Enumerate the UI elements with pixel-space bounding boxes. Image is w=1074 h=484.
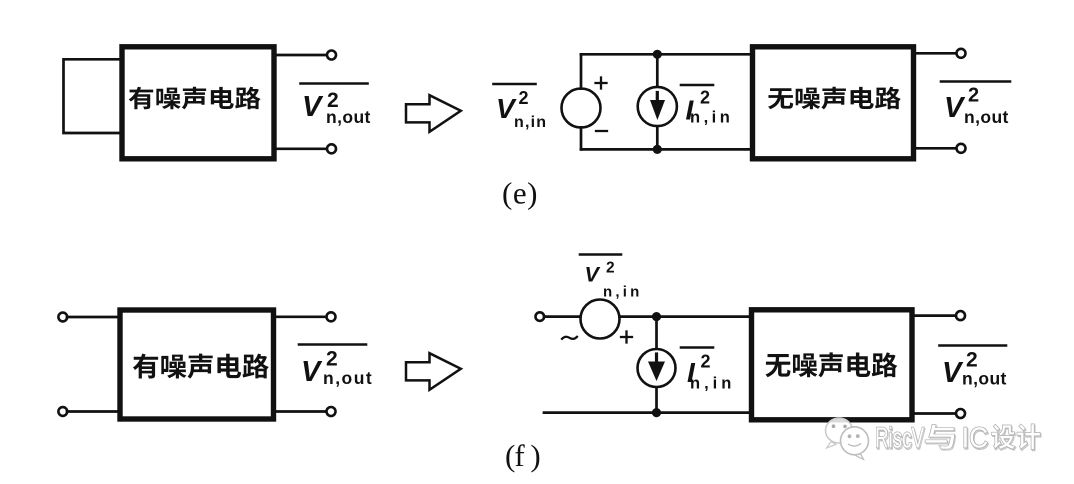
label 有噪声电路 (f) xyxy=(133,354,269,379)
junction: top node (f) xyxy=(652,312,661,321)
terminal: top output (e right) xyxy=(957,49,966,58)
wire: bottom input (f) xyxy=(67,410,120,413)
wire: voltage source to junction (f) xyxy=(620,315,657,318)
watermark text RiscV xyxy=(875,423,925,456)
label Vn,out^2 (f, after noisy box) xyxy=(299,345,373,389)
watermark text IC xyxy=(962,423,990,456)
current source arrow (e) xyxy=(656,93,659,102)
noiseless circuit box (f) xyxy=(752,310,913,420)
svg-text:V: V xyxy=(944,92,966,124)
wire: shorted input loop of noisy circuit (e) xyxy=(64,59,120,133)
wire: bottom bus (e) xyxy=(581,148,752,151)
svg-text:V: V xyxy=(942,357,964,389)
watermark text 与 xyxy=(926,425,956,450)
noise voltage source Vn,in (f) xyxy=(581,300,620,339)
label Vn,out^2 (e, after noisy box) xyxy=(301,84,371,128)
noise current source In,in (f) xyxy=(638,349,676,387)
label Vn,out^2 (e, output) xyxy=(941,82,1010,128)
wire: current source verticals (f) xyxy=(655,317,658,413)
wire: top output of noisy box (e) xyxy=(277,54,328,57)
polarity plus (e source) xyxy=(596,78,607,89)
noisy circuit box (f) xyxy=(120,310,274,419)
arrow (f) xyxy=(406,353,461,390)
label 有噪声电路 (e) xyxy=(129,87,261,110)
terminal: bottom output (f right) xyxy=(956,409,965,418)
svg-text:n,out: n,out xyxy=(326,107,371,127)
svg-text:2: 2 xyxy=(700,88,710,108)
svg-text:n,out: n,out xyxy=(962,369,1007,389)
noise voltage source Vn,in (e) xyxy=(562,89,601,128)
wire: voltage source verticals (e) xyxy=(580,54,583,149)
svg-text:2: 2 xyxy=(701,352,711,372)
wire: bottom bus (f) xyxy=(544,411,751,414)
svg-text:(e): (e) xyxy=(502,176,538,211)
terminal: bottom output (e left) xyxy=(327,144,336,153)
noise current source In,in (e) xyxy=(638,87,677,126)
watermark logo: back speech bubble xyxy=(826,418,853,448)
watermark text 计 xyxy=(1017,424,1041,450)
wire: bottom output of noiseless box (e) xyxy=(914,147,957,150)
label In,in^2 (e) xyxy=(681,85,733,127)
svg-text:2: 2 xyxy=(606,260,615,277)
wire: top input (f) xyxy=(67,316,120,319)
junction: bottom node (f) xyxy=(652,408,661,417)
terminal: bottom output (f left) xyxy=(327,407,336,416)
terminal: top output (e left) xyxy=(327,51,336,60)
svg-text:2: 2 xyxy=(968,85,979,107)
svg-text:V: V xyxy=(302,91,324,123)
polarity plus (f source) xyxy=(621,332,632,343)
wire: bottom output of noiseless box (f) xyxy=(913,412,957,415)
junction: top node (e) xyxy=(653,50,662,59)
junction: bottom node (e) xyxy=(653,145,662,154)
label Vn,in^2 (e) xyxy=(494,84,548,131)
wire: top output of noiseless box (f) xyxy=(913,314,957,317)
watermark logo: front speech bubble xyxy=(841,427,869,460)
svg-text:n,out: n,out xyxy=(323,368,373,388)
label 无噪声电路 (f) xyxy=(765,352,897,377)
noisy circuit box (e) xyxy=(122,47,274,159)
svg-text:n,in: n,in xyxy=(690,375,735,393)
polarity minus (e source) xyxy=(596,130,607,132)
svg-text:n,out: n,out xyxy=(964,107,1009,127)
svg-text:V: V xyxy=(301,356,323,388)
wire: top bus (e) xyxy=(581,53,752,56)
svg-text:n,in: n,in xyxy=(514,114,547,131)
wire: junction to noiseless box (f) xyxy=(657,315,752,318)
svg-text:n,in: n,in xyxy=(690,109,733,127)
svg-text:(f ): (f ) xyxy=(505,438,540,473)
terminal: bottom input (f left) xyxy=(58,407,67,416)
wire: bottom output of noisy box (f) xyxy=(276,410,327,413)
label In,in^2 (f) xyxy=(681,348,735,393)
svg-text:IC: IC xyxy=(962,423,989,455)
svg-text:2: 2 xyxy=(519,88,529,108)
watermark text 设 xyxy=(992,425,1016,450)
arrow (e) xyxy=(406,95,461,132)
label Vn,out^2 (f, output) xyxy=(940,346,1007,390)
terminal: input (f series source) xyxy=(536,312,545,321)
svg-text:n,in: n,in xyxy=(603,284,642,301)
terminal: bottom output (e right) xyxy=(957,144,966,153)
wire: current source verticals (e) xyxy=(656,54,659,149)
svg-text:RiscV: RiscV xyxy=(875,423,924,455)
current source arrow (f) xyxy=(655,354,658,363)
wire: bottom output of noisy box (e) xyxy=(277,147,328,150)
noiseless circuit box (e) xyxy=(753,47,914,159)
label Vn,in^2 (f) xyxy=(580,255,642,301)
wire: top output of noiseless box (e) xyxy=(914,52,957,55)
polarity tilde/minus (f source) xyxy=(562,337,577,339)
wire: top output of noisy box (f) xyxy=(276,315,327,318)
terminal: top output (f right) xyxy=(956,311,965,320)
svg-text:V: V xyxy=(585,263,601,287)
wire: input to voltage source (f) xyxy=(544,315,581,318)
label 无噪声电路 (e) xyxy=(768,87,901,110)
terminal: top output (f left) xyxy=(327,312,336,321)
terminal: top input (f left) xyxy=(58,313,67,322)
